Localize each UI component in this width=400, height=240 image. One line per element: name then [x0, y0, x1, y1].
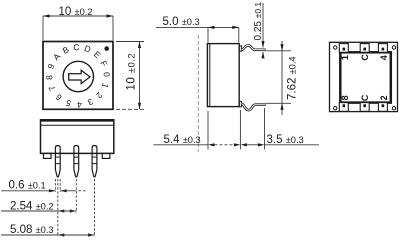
bottom pin collar: [239, 101, 241, 106]
switch body outline (top face square): [43, 42, 113, 110]
svg-text:8: 8: [340, 95, 350, 100]
rotor arrow: [69, 70, 90, 83]
svg-text:4: 4: [379, 55, 389, 60]
pin 1 (front view): [55, 146, 60, 177]
corner circle top-left: [334, 46, 337, 49]
svg-text:C: C: [73, 42, 80, 52]
bottom view outer body: [330, 42, 398, 111]
side body: [207, 44, 239, 107]
bottom gull-wing pin: [241, 104, 265, 111]
bottom pads: [339, 103, 387, 112]
svg-text:5.4 ±0.3: 5.4 ±0.3: [164, 134, 201, 146]
inner square: [340, 52, 391, 102]
svg-text:5.0 ±0.3: 5.0 ±0.3: [163, 16, 200, 28]
svg-text:2: 2: [379, 95, 389, 100]
svg-text:0.25 ±0.1: 0.25 ±0.1: [253, 2, 264, 41]
svg-text:5.08 ±0.3: 5.08 ±0.3: [10, 224, 54, 236]
svg-text:1: 1: [340, 55, 350, 60]
dimension 5.08 +-0.3 (outer pin pitch): [1, 224, 95, 237]
dimension 7.62 +-0.4 (lead span): [266, 41, 299, 115]
switch body front: [40, 120, 114, 154]
right standoff foot: [102, 153, 110, 158]
svg-text:0: 0: [102, 72, 112, 78]
corner circle top-right: [392, 46, 395, 49]
svg-text:4: 4: [77, 100, 83, 110]
svg-text:3.5 ±0.3: 3.5 ±0.3: [267, 134, 304, 146]
svg-text:2.54 ±0.2: 2.54 ±0.2: [10, 200, 54, 212]
dimension 10 +-0.2 (right, height): [116, 42, 144, 110]
extension lines below pins: [55, 179, 94, 237]
datum dashed line: [197, 35, 199, 152]
dimension 5.0 +-0.3 (body depth, top): [156, 16, 239, 42]
dial characters 0-F: [42, 40, 113, 111]
pin 3 (front view): [92, 146, 97, 177]
pin 2 (front view): [74, 146, 79, 177]
rotor circle: [63, 61, 93, 91]
dimension 0.25 +-0.1 (pin thickness): [253, 2, 265, 59]
svg-text:8: 8: [44, 75, 54, 81]
dimension 0.6 +-0.1 (pin width): [1, 180, 87, 193]
svg-text:0.6 ±0.1: 0.6 ±0.1: [9, 180, 46, 192]
svg-text:10 ±0.2: 10 ±0.2: [59, 6, 93, 18]
left standoff foot: [44, 153, 52, 158]
svg-text:C: C: [360, 54, 370, 61]
svg-text:7.62 ±0.4: 7.62 ±0.4: [287, 56, 299, 100]
svg-text:C: C: [360, 94, 370, 101]
pad labels: [340, 54, 389, 102]
orientation dot: [104, 46, 109, 51]
dimension 10 +-0.2 (top, width): [43, 6, 113, 40]
dimension 3.5 +-0.3 (pin length, bottom): [240, 108, 319, 150]
corner circle bottom-left: [334, 107, 337, 110]
top gull-wing pin: [241, 45, 265, 50]
top pads: [339, 44, 387, 53]
dimension 5.4 +-0.3 (bottom left): [154, 110, 241, 150]
top pin collar: [239, 46, 241, 51]
svg-text:10 ±0.2: 10 ±0.2: [126, 53, 138, 91]
corner circle bottom-right: [392, 107, 395, 110]
dimension 2.54 +-0.2 (pin pitch): [1, 200, 76, 212]
